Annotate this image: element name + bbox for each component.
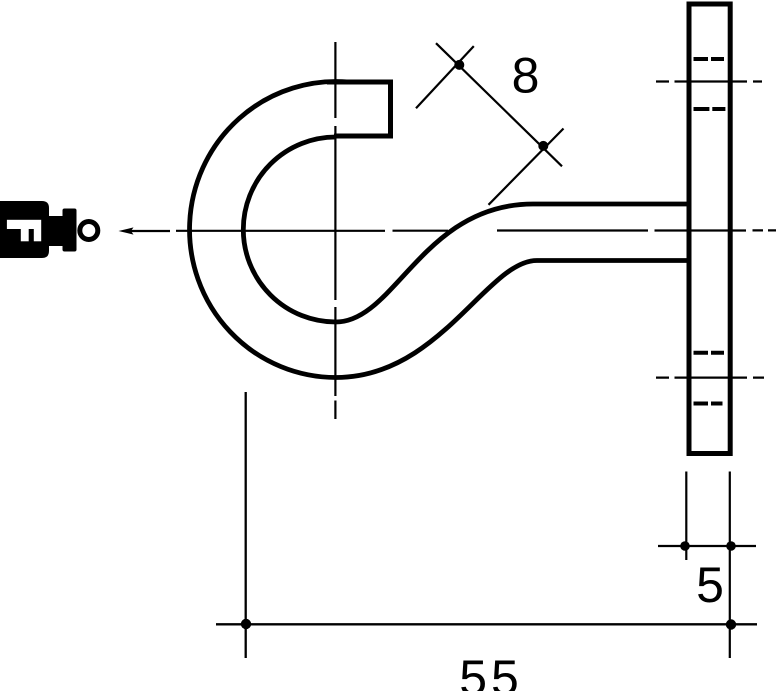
letter F middle arm <box>21 229 29 241</box>
top hole centerline <box>656 80 762 82</box>
dimension 8 extension tick upper <box>416 46 474 108</box>
dimension 55 extension line left <box>245 392 247 658</box>
wall plate <box>689 4 730 454</box>
hook inner arc and upper shank curve <box>243 137 688 322</box>
dimension 55 line <box>216 623 757 625</box>
dimension 5 dot left <box>680 541 690 551</box>
letter F (white, rotated 90deg) stem <box>7 220 41 229</box>
vertical centerline <box>334 42 336 419</box>
top hole hidden edges (dashed) <box>694 59 726 109</box>
dimension 8 dot upper <box>454 60 464 70</box>
svg-text:5: 5 <box>696 557 724 613</box>
horizontal centerline <box>176 229 776 232</box>
dimension 55 dot left <box>241 619 251 629</box>
force arrow F head <box>119 227 134 234</box>
svg-text:8: 8 <box>512 48 540 104</box>
dimension 8 extension tick lower <box>489 129 564 205</box>
dimension 5 dot right <box>726 541 736 551</box>
dimension 8 dot lower <box>538 141 548 151</box>
force gauge neck <box>47 216 63 246</box>
dimension 8 line <box>436 43 562 166</box>
dimension 5 extension line left <box>685 472 687 561</box>
letter F top arm <box>34 229 41 241</box>
dimension 55 dot right <box>726 619 736 629</box>
svg-text:55: 55 <box>459 650 523 691</box>
ring <box>80 222 98 240</box>
dimension 5 / 55 shared extension line right <box>729 472 731 659</box>
dimension 5 line <box>658 545 756 547</box>
force gauge shackle bar <box>63 209 77 252</box>
hook outer arc and lower shank curve <box>190 82 688 378</box>
bottom hole hidden edges (dashed) <box>694 353 725 404</box>
bottom hole centerline <box>656 377 764 379</box>
hook squared end <box>327 82 391 136</box>
force arrow F shaft <box>128 230 170 232</box>
force gauge body (black box) <box>0 201 49 258</box>
